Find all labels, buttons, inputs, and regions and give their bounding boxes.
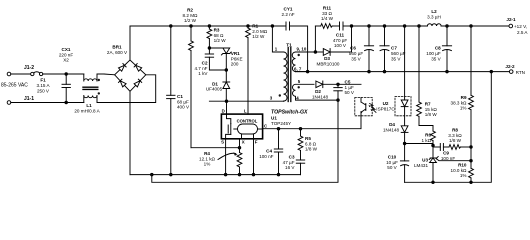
capacitor C5	[334, 84, 342, 100]
label D3 value	[317, 56, 340, 66]
svg-text:47 µF: 47 µF	[283, 160, 295, 165]
svg-text:+12 V,: +12 V,	[514, 24, 527, 29]
diode D4	[401, 126, 408, 144]
svg-text:R7: R7	[425, 102, 431, 107]
svg-text:CY1: CY1	[284, 7, 293, 12]
svg-text:R5: R5	[305, 136, 311, 141]
wire snubber left leg	[314, 26, 316, 52]
svg-text:20 mH/0.8 A: 20 mH/0.8 A	[74, 109, 100, 114]
svg-text:J1-1: J1-1	[24, 96, 34, 102]
inductor L2	[427, 24, 509, 26]
wire secondary to D3	[315, 51, 323, 53]
svg-text:R9: R9	[461, 95, 467, 100]
svg-text:CONTROL: CONTROL	[237, 118, 258, 123]
svg-text:100 nF: 100 nF	[441, 156, 455, 161]
svg-text:R11: R11	[323, 6, 332, 11]
label R3 value	[214, 28, 227, 44]
junction C1 bottom	[170, 173, 173, 176]
svg-text:1N4148: 1N4148	[312, 94, 329, 99]
U1 MOSFET symbol	[226, 114, 231, 139]
svg-text:100 V: 100 V	[334, 43, 347, 48]
svg-text:1/2 W: 1/2 W	[252, 34, 265, 39]
junction CX1 bottom	[65, 101, 68, 104]
svg-text:C4: C4	[266, 149, 272, 154]
svg-text:C2: C2	[202, 61, 208, 66]
junction C4 bottom	[277, 173, 280, 176]
wire drain line	[209, 100, 283, 102]
svg-text:2A, 600 V: 2A, 600 V	[107, 50, 128, 55]
svg-text:L1: L1	[86, 103, 92, 108]
label C5 value	[345, 80, 355, 96]
capacitor C3	[296, 160, 304, 175]
svg-text:J2-2: J2-2	[505, 64, 515, 69]
svg-text:8.2 MΩ: 8.2 MΩ	[183, 13, 198, 18]
svg-text:R6: R6	[425, 133, 431, 138]
junction T1 pin1 rail	[271, 25, 274, 28]
svg-text:1/8 W: 1/8 W	[425, 112, 438, 117]
svg-text:1/2 W: 1/2 W	[214, 38, 227, 43]
svg-text:35 V: 35 V	[431, 57, 441, 62]
label C8 value	[426, 46, 441, 62]
capacitor C11	[340, 22, 352, 30]
svg-text:220 nF: 220 nF	[59, 52, 73, 57]
resistor R10	[469, 168, 474, 182]
resistor R6	[431, 131, 436, 144]
junction R6 bottom node	[432, 144, 435, 147]
svg-text:1/4 W: 1/4 W	[321, 16, 334, 21]
label C6 value	[349, 46, 364, 62]
svg-text:R8: R8	[452, 128, 458, 133]
label R6 value	[421, 133, 431, 143]
label BR1 value	[107, 45, 128, 56]
fuse F1	[31, 72, 67, 76]
junction C4 top	[277, 127, 280, 130]
junction snubber right on rail	[350, 25, 353, 28]
resistor R9	[469, 26, 474, 168]
svg-text:X2: X2	[63, 58, 69, 63]
capacitor CY1	[272, 22, 307, 72]
svg-text:100 µF: 100 µF	[426, 51, 441, 56]
label U1 TOPSwitch-GX	[271, 110, 308, 127]
junction C5 top	[337, 83, 340, 86]
svg-text:C8: C8	[435, 46, 441, 51]
label D2 value	[312, 89, 329, 99]
wire C pin line	[263, 116, 361, 129]
svg-text:C1: C1	[177, 94, 183, 99]
svg-text:50 V: 50 V	[345, 90, 355, 95]
junction R8 divider	[470, 146, 473, 149]
svg-text:F1: F1	[40, 78, 46, 83]
svg-text:D4: D4	[389, 122, 395, 127]
svg-text:68 µF: 68 µF	[177, 99, 189, 104]
optocoupler U2 LED side	[395, 26, 411, 126]
wire bridge top to B+ rail	[129, 26, 131, 60]
svg-text:D3: D3	[324, 56, 330, 61]
label J2-2	[505, 64, 525, 75]
svg-text:4.7 nF: 4.7 nF	[194, 66, 207, 71]
U1 CONTROL block	[234, 118, 263, 139]
label C2 value	[194, 61, 208, 77]
svg-text:1 µF: 1 µF	[345, 85, 354, 90]
svg-text:P6KE: P6KE	[231, 56, 243, 61]
T1 phase dot secondary	[298, 54, 300, 56]
T1 phase dot bias	[298, 86, 300, 88]
svg-text:VR1: VR1	[231, 51, 240, 56]
resistor R2	[189, 26, 194, 148]
svg-text:2.2 nF: 2.2 nF	[281, 12, 294, 17]
svg-text:35 V: 35 V	[351, 57, 361, 62]
svg-text:68 Ω: 68 Ω	[214, 33, 224, 38]
wire R7 to R6	[419, 126, 433, 132]
svg-text:ISP817C: ISP817C	[376, 107, 395, 112]
svg-text:2.5 A: 2.5 A	[517, 30, 528, 35]
transformer T1 bias winding	[293, 84, 339, 100]
junction R9 top	[470, 25, 473, 28]
label L2 value	[427, 9, 441, 20]
junction C8 bottom	[446, 70, 449, 73]
svg-text:C9: C9	[443, 151, 449, 156]
label R4 value with callout arrow	[199, 151, 216, 167]
wire L1 to bridge AC left	[104, 73, 115, 76]
terminal J1-1	[7, 101, 66, 105]
junction C7 bottom	[383, 70, 386, 73]
junction ref divider	[470, 159, 473, 162]
capacitor C8	[442, 26, 451, 72]
wire secondary output rail	[352, 25, 428, 27]
resistor R11	[315, 24, 339, 29]
junction opto LED rail	[403, 25, 406, 28]
svg-text:470 pF: 470 pF	[333, 38, 347, 43]
junction C8 top	[446, 25, 449, 28]
capacitor C1	[167, 26, 175, 175]
svg-text:RTN: RTN	[516, 70, 525, 75]
transformer T1 core	[288, 48, 291, 102]
junction R4 ground	[238, 173, 241, 176]
svg-text:6, 7: 6, 7	[294, 67, 302, 72]
svg-text:R10: R10	[458, 163, 467, 168]
junction drain D pin	[225, 100, 228, 103]
svg-text:560 µF: 560 µF	[391, 51, 406, 56]
label U2 value	[376, 101, 395, 112]
label J2-1	[506, 17, 528, 35]
inductor L1 common-mode choke	[83, 74, 104, 103]
capacitor C2	[205, 48, 226, 70]
svg-text:1 kΩ: 1 kΩ	[421, 138, 431, 143]
junction R3 top	[208, 25, 211, 28]
svg-text:16 V: 16 V	[285, 165, 295, 170]
svg-text:U2: U2	[383, 101, 389, 106]
label R7 value	[425, 102, 438, 118]
label R1 value	[252, 24, 267, 40]
resistor R8	[449, 145, 471, 150]
transformer T1 secondary winding	[292, 52, 315, 72]
label R10 value	[451, 163, 468, 179]
junction C6 top	[368, 25, 371, 28]
svg-text:C5: C5	[345, 80, 351, 85]
label L1 value	[74, 103, 100, 114]
terminal J1-2	[7, 72, 30, 76]
label CX1 value	[59, 47, 73, 63]
terminal J2-2	[509, 70, 513, 74]
junction C1 top	[170, 25, 173, 28]
label C7 value	[391, 46, 406, 62]
label C10 value	[386, 155, 398, 171]
label R2 value	[183, 8, 198, 24]
label R8 value	[448, 128, 462, 144]
wire X pin	[239, 139, 241, 153]
shunt regulator U3 LM431	[429, 144, 471, 183]
wire CX1 to L1 top	[66, 73, 84, 75]
terminal J2-1	[509, 24, 513, 28]
junction D4 C10 node	[403, 142, 406, 145]
label D4 value	[383, 122, 400, 132]
svg-text:200: 200	[231, 62, 239, 67]
junction R7 top	[418, 25, 421, 28]
junction CY1 to RTN	[306, 70, 309, 73]
svg-text:15 kΩ: 15 kΩ	[425, 107, 438, 112]
svg-text:U1: U1	[271, 116, 277, 121]
label F1 value	[36, 78, 50, 94]
svg-text:LM431: LM431	[414, 163, 428, 168]
svg-text:D2: D2	[315, 89, 321, 94]
op-amp U1 TOPSwitch outline	[221, 114, 262, 139]
junction C6 bottom	[368, 70, 371, 73]
svg-text:D: D	[222, 108, 225, 113]
svg-text:50 V: 50 V	[387, 165, 397, 170]
junction S ground	[224, 173, 227, 176]
transformer T1 primary winding	[272, 26, 287, 101]
label U3 value	[414, 158, 428, 168]
svg-text:F: F	[255, 140, 258, 145]
svg-text:2.0 MΩ: 2.0 MΩ	[252, 29, 267, 34]
svg-text:R1: R1	[252, 24, 258, 29]
svg-text:UF4005: UF4005	[206, 86, 223, 91]
svg-text:C6: C6	[350, 46, 356, 51]
svg-text:L2: L2	[431, 9, 437, 14]
resistor R1	[246, 26, 251, 114]
diode D1	[223, 70, 230, 101]
wire CX1 to L1 bottom	[66, 102, 84, 104]
label C3 value	[283, 155, 296, 171]
label C4 value	[259, 149, 273, 159]
resistor R3	[207, 26, 212, 48]
svg-text:1 kV: 1 kV	[198, 71, 208, 76]
wire compensation line	[433, 146, 440, 148]
svg-text:10 µF: 10 µF	[386, 160, 398, 165]
junction C5 bottom pin4	[337, 99, 340, 102]
svg-text:C3: C3	[289, 155, 295, 160]
junction C7 top	[383, 25, 386, 28]
label R5 value	[305, 136, 318, 152]
svg-text:R4: R4	[204, 151, 210, 156]
wire primary ground rail	[130, 174, 301, 176]
svg-text:C11: C11	[336, 33, 345, 38]
svg-text:1%: 1%	[460, 173, 467, 178]
capacitor CX1	[62, 74, 70, 103]
svg-text:6.8 Ω: 6.8 Ω	[305, 141, 317, 146]
svg-text:3.3 kΩ: 3.3 kΩ	[448, 133, 462, 138]
svg-text:33 Ω: 33 Ω	[322, 11, 332, 16]
zener VR1	[221, 48, 231, 70]
label C9 value	[441, 151, 455, 161]
capacitor C7	[380, 26, 389, 72]
svg-text:TOP245Y: TOP245Y	[271, 121, 291, 126]
svg-text:100 nF: 100 nF	[259, 154, 273, 159]
junction clamp node R3 C2	[208, 47, 211, 50]
junction RTN drop	[490, 70, 493, 73]
resistor R7	[417, 26, 422, 126]
svg-text:12.1 kΩ: 12.1 kΩ	[199, 156, 216, 161]
junction R2 top	[190, 25, 193, 28]
diode D2	[316, 81, 361, 88]
svg-text:BR1: BR1	[112, 45, 122, 50]
wire clamp node to VR1	[209, 47, 226, 49]
resistor R4	[237, 153, 242, 175]
svg-text:38.3 kΩ: 38.3 kΩ	[451, 100, 468, 105]
svg-text:10.0 kΩ: 10.0 kΩ	[451, 168, 468, 173]
junction U3 anode ground	[432, 181, 435, 184]
capacitor C10	[400, 144, 408, 183]
svg-text:CX1: CX1	[62, 47, 71, 52]
label CY1 value	[281, 7, 294, 18]
svg-text:R2: R2	[187, 8, 193, 13]
svg-text:L: L	[244, 108, 247, 113]
label VR1 value	[231, 51, 243, 67]
junction F ground	[252, 173, 255, 176]
capacitor C9	[440, 144, 449, 151]
label C11 value	[333, 33, 347, 49]
wire L1 bottom to bridge AC right	[104, 75, 156, 103]
capacitor C4	[274, 129, 282, 175]
svg-text:9, 10: 9, 10	[297, 47, 307, 52]
wire B+ top rail	[130, 25, 284, 27]
junction R1 top	[247, 25, 250, 28]
svg-text:T1: T1	[286, 43, 292, 49]
junction VR1 C2 D1 node	[225, 69, 228, 72]
svg-text:3.15 A: 3.15 A	[36, 83, 50, 88]
bridge rectifier BR1	[115, 60, 146, 91]
junction CX1 top	[65, 73, 68, 76]
svg-text:400 V: 400 V	[177, 105, 190, 110]
label D1 value	[206, 81, 223, 91]
svg-text:1/2 W: 1/2 W	[184, 18, 197, 23]
junction R5 top	[299, 127, 302, 130]
wire F pin to ground	[253, 139, 255, 175]
svg-text:85-265 VAC: 85-265 VAC	[1, 83, 28, 89]
svg-text:X: X	[242, 140, 245, 145]
wire bridge bottom to primary ground rail	[129, 91, 131, 174]
svg-text:1%: 1%	[460, 106, 467, 111]
optocoupler U2 transistor side	[355, 98, 376, 116]
svg-text:1/8 W: 1/8 W	[449, 138, 462, 143]
svg-text:560 µF: 560 µF	[349, 51, 364, 56]
svg-text:S: S	[221, 140, 224, 145]
wire D3 cathode up to output rail	[351, 26, 353, 52]
diode D3	[323, 49, 351, 56]
svg-text:U3: U3	[422, 158, 428, 163]
resistor R5	[298, 129, 303, 160]
wire S pin to ground	[225, 139, 227, 175]
svg-text:250 V: 250 V	[37, 88, 50, 93]
svg-text:1/8 W: 1/8 W	[305, 147, 318, 152]
svg-text:MBR10100: MBR10100	[317, 61, 340, 66]
wire primary lower return rail	[152, 100, 338, 182]
svg-text:C7: C7	[391, 46, 397, 51]
svg-text:35 V: 35 V	[391, 57, 401, 62]
junction R10 bottom	[470, 181, 473, 184]
wire RTN drop to secondary ground rail	[405, 72, 492, 183]
wire secondary RTN rail	[296, 71, 510, 73]
capacitor C6	[364, 26, 373, 72]
label R9 value	[451, 95, 468, 111]
svg-text:1%: 1%	[204, 162, 211, 167]
label C1 value	[177, 94, 190, 110]
svg-text:1N4148: 1N4148	[383, 127, 400, 132]
T1 phase dot primary	[279, 94, 281, 96]
wire D4 node to R6	[405, 143, 433, 145]
label R11 value	[321, 6, 334, 22]
svg-text:J2-1: J2-1	[506, 17, 516, 22]
junction snubber left	[314, 51, 317, 54]
svg-text:R3: R3	[214, 28, 220, 33]
junction lower rail step	[151, 173, 154, 176]
svg-text:J1-2: J1-2	[24, 65, 34, 71]
wire D pin	[226, 101, 228, 114]
svg-text:3.3 µH: 3.3 µH	[427, 15, 441, 20]
junction X pin R2 node	[238, 146, 241, 149]
wire R2 bottom to X pin node	[191, 147, 240, 149]
svg-text:C10: C10	[388, 155, 397, 160]
